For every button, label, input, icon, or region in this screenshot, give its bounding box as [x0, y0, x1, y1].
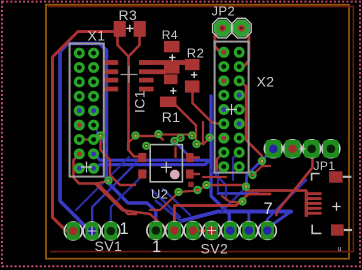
wire top JP1 row pad1-pad2 — [274, 146, 293, 149]
U2 drill mark — [170, 170, 180, 180]
connector X1 silk — [70, 44, 104, 177]
wire bottom via into U2 — [175, 142, 187, 154]
resistor R2 — [185, 59, 200, 70]
wire bottom x2 area — [211, 170, 226, 200]
wire top left mesh — [101, 136, 136, 185]
board outline (dimension, orange) — [46, 5, 349, 259]
wire top via drop b — [203, 138, 210, 145]
svg-text:1: 1 — [152, 238, 162, 256]
wire top X2 row8 hook — [217, 152, 224, 170]
svg-text:1: 1 — [120, 220, 130, 238]
wire top X2 right down — [239, 81, 262, 163]
wire top seg above U2 — [159, 133, 191, 135]
IC U2 left pads — [138, 153, 146, 162]
wire bottom from X2 b — [218, 167, 224, 192]
wire top below U2 diag — [150, 193, 179, 211]
vias — [98, 133, 104, 139]
svg-text:IC1: IC1 — [132, 90, 148, 113]
connector X2 pads — [218, 47, 229, 58]
wire top via link — [253, 166, 271, 175]
wire bottom from X2 — [233, 152, 239, 180]
wire top via to via — [207, 184, 247, 186]
wire bottom along X1 right — [107, 50, 156, 228]
wire top R3 right to spine — [130, 37, 140, 56]
wire top JP2-1 to X2-1 — [215, 28, 224, 52]
wire bottom diag — [222, 187, 247, 211]
svg-text:R3: R3 — [119, 7, 138, 23]
JP1 comb pads — [305, 191, 308, 217]
wire top via link above U2 — [136, 136, 163, 140]
svg-text:X1: X1 — [88, 28, 106, 44]
wire top under X2 — [203, 176, 226, 178]
svg-text:R1: R1 — [162, 109, 181, 125]
wire top via join — [96, 181, 109, 184]
wire top X1 row6 — [79, 136, 100, 140]
wire bottom to SV2-6 — [247, 214, 250, 228]
wire bottom diag to SV2-7 — [267, 180, 306, 228]
wire top JP2-2 to X2 — [239, 28, 249, 67]
svg-text:SV2: SV2 — [201, 241, 229, 257]
wire bottom VCC left loop — [60, 44, 107, 232]
wire top left loop to SV1-1 — [53, 32, 114, 232]
wire bottom into JP1 row pad1 — [247, 149, 274, 186]
wire bottom diag join — [156, 201, 181, 221]
wire bottom through U2 upper — [95, 155, 207, 161]
wire top R1 down — [175, 104, 197, 140]
svg-text:SV1: SV1 — [95, 238, 123, 254]
U2 inner red stub — [174, 147, 176, 159]
svg-text:R4: R4 — [162, 28, 178, 42]
wire bottom diag to SV1-2 — [92, 163, 136, 230]
connector row JP1 pads — [264, 140, 282, 158]
wire top right of U2 up — [197, 122, 204, 145]
resistor R1 — [164, 74, 178, 84]
wire bottom x1 lower — [97, 124, 106, 145]
wire top diag to SV2 — [95, 184, 174, 230]
wire top SV2-2 up and right — [174, 194, 270, 230]
wire top R2 to X2 — [193, 93, 224, 124]
connector SV2 pads — [147, 222, 165, 240]
wire bottom diag to SV1-3 — [111, 172, 146, 228]
X2 origin cross — [226, 104, 237, 115]
resistor R3 — [114, 21, 126, 37]
resistor R4 — [164, 41, 180, 52]
svg-text:7: 7 — [264, 200, 274, 218]
board inner frame (maroon) — [48, 7, 353, 252]
wire bottom diag mesh a — [152, 190, 180, 217]
wire bottom diag mid — [76, 157, 129, 210]
jumper JP2 silk — [213, 18, 233, 38]
svg-text:U2: U2 — [151, 186, 168, 201]
svg-text:JP1: JP1 — [314, 159, 336, 173]
op-amp IC1 (SO-8 pads) — [104, 60, 119, 65]
wire top X1 bottom diag — [74, 154, 137, 214]
IC U2 silk outline — [150, 145, 182, 182]
jumper JP2 pads — [214, 20, 230, 36]
wire top right mesh — [222, 196, 243, 202]
wire bottom left of X2 to SV2-5 — [211, 96, 229, 229]
wire bottom diag mesh b — [163, 189, 190, 215]
wire top IC1 spine — [118, 37, 141, 157]
svg-text:X2: X2 — [257, 73, 275, 89]
connector X2 silk — [215, 42, 249, 173]
U2 small pad — [188, 182, 194, 187]
wire bottom long horizontal above SV2 — [181, 212, 291, 222]
wire bottom into SV2-7 — [267, 212, 291, 229]
IC1 origin cross — [121, 66, 138, 83]
IC U2 right pads — [186, 153, 194, 162]
wire bottom seg right — [218, 192, 258, 195]
wire top JP1 row pad3 down — [277, 149, 313, 215]
U2 origin cross — [161, 162, 172, 173]
X1 pin-1 mark — [81, 162, 92, 173]
wire top SV2 pad3-pad4 — [193, 229, 212, 232]
wire top via drop — [128, 136, 136, 150]
wire top below U2 — [179, 186, 207, 193]
connector SV1 pads — [64, 222, 82, 240]
connector X1 pads — [74, 48, 85, 59]
svg-text:u: u — [338, 246, 342, 253]
svg-text:JP2: JP2 — [212, 4, 236, 19]
svg-text:R2: R2 — [187, 46, 204, 61]
wire top long into JP1 comb — [246, 189, 306, 192]
wire bottom through U2 lower — [95, 159, 211, 168]
